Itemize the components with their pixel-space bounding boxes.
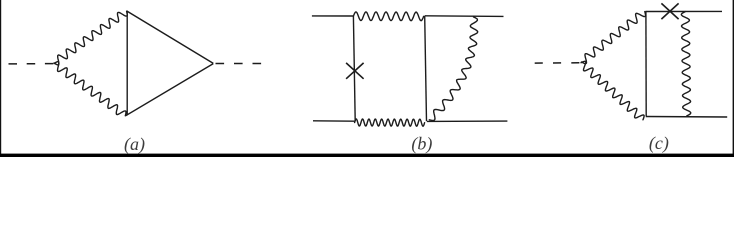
diagram b: bottom photon wavy segment (355, 119, 425, 126)
svg-text:(b): (b) (411, 134, 432, 155)
diagram b: top photon wavy segment (353, 12, 423, 21)
diagram c: top fermion line (646, 10, 723, 12)
bottom black bar (0, 154, 734, 157)
diagram b: curved photon exchange line (429, 17, 477, 121)
diagram c: lower photon wavy line (581, 61, 644, 120)
diagram b: bottom fermion line left segment (313, 120, 355, 122)
diagram c: mass-insertion cross on top line (661, 3, 678, 19)
right page border (733, 0, 734, 157)
diagram a: upper photon wavy line (54, 11, 127, 65)
diagram c: left vertical fermion line (645, 11, 647, 116)
diagram a: fermion loop left vertical side (126, 11, 128, 116)
diagram a: lower photon wavy line (54, 62, 126, 116)
diagram b: mass-insertion cross on left line (346, 63, 364, 79)
diagram a: fermion loop lower side (126, 64, 214, 116)
diagram a: outgoing dashed scalar line (216, 63, 262, 65)
diagram c: upper photon wavy line (582, 12, 646, 64)
diagram b: top fermion line right segment (425, 15, 504, 18)
svg-text:(c): (c) (649, 133, 669, 154)
left page border (0, 0, 1, 157)
diagram b: top fermion line left segment (312, 15, 353, 17)
diagram b: left vertical fermion line (353, 16, 355, 121)
diagram b: right vertical fermion line (425, 16, 427, 121)
diagram a: fermion loop upper side (127, 11, 214, 63)
diagram a: incoming dashed scalar line (9, 63, 54, 65)
svg-text:(a): (a) (124, 134, 145, 155)
diagram c: bottom fermion line (646, 116, 727, 119)
diagram c: vertical photon wavy line (681, 12, 691, 116)
diagram c: incoming dashed scalar line (535, 62, 580, 64)
diagram b: bottom fermion line right segment (427, 120, 507, 122)
